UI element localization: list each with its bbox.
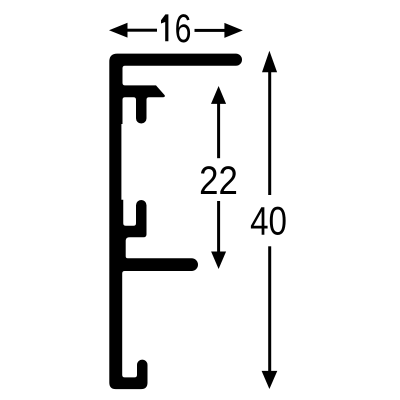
- dimension 16: right line segment: [195, 29, 226, 32]
- dimension 22: top arrowhead: [211, 86, 226, 104]
- dimension 22: bottom arrowhead: [211, 252, 226, 270]
- dimension 22: lower line segment: [217, 201, 220, 253]
- dimension 16: left arrowhead: [109, 23, 128, 38]
- dimension 40: top arrowhead: [262, 51, 277, 73]
- dimension 22: upper line segment: [217, 103, 220, 158]
- svg-text:6: 6: [175, 6, 192, 51]
- dimension 40: lower line segment: [268, 246, 271, 371]
- dimension 40: upper line segment: [268, 71, 271, 195]
- dimension 16: right arrowhead: [224, 23, 242, 38]
- aluminium profile cross-section: [109, 54, 242, 390]
- svg-text:22: 22: [199, 158, 238, 203]
- dimension 16: label digit 1: [161, 14, 168, 41]
- dimension 40: bottom arrowhead: [262, 371, 278, 389]
- dimension 16: left line segment: [127, 29, 157, 32]
- svg-text:40: 40: [250, 199, 287, 244]
